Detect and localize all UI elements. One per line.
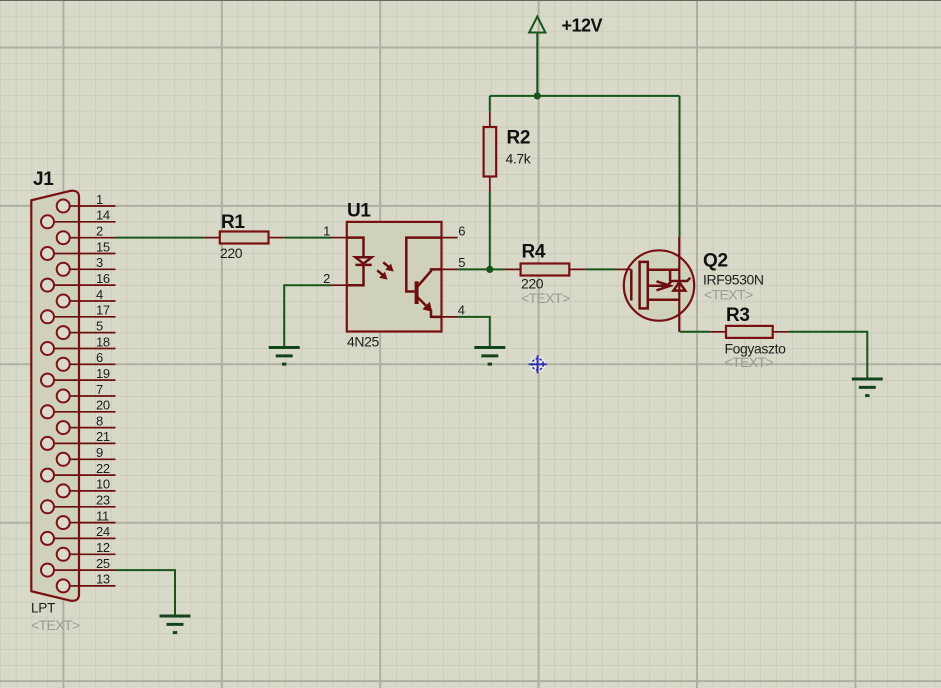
svg-text:14: 14 [96, 208, 110, 223]
svg-text:6: 6 [96, 350, 103, 365]
svg-text:<TEXT>: <TEXT> [521, 290, 570, 306]
wire J1 pin25 to ground [116, 570, 176, 616]
ground at R3 [852, 379, 883, 396]
svg-text:R3: R3 [726, 305, 750, 326]
U1 internal LED [347, 238, 372, 286]
svg-text:2: 2 [96, 224, 103, 239]
power +12V symbol [529, 17, 545, 96]
J1 pin circles [41, 200, 70, 593]
wire U1 pin4 to ground [458, 317, 490, 348]
svg-text:4N25: 4N25 [347, 334, 379, 350]
svg-text:18: 18 [96, 334, 110, 349]
svg-text:19: 19 [96, 366, 110, 381]
svg-text:9: 9 [96, 445, 103, 460]
svg-text:4: 4 [458, 303, 465, 318]
svg-text:22: 22 [96, 461, 110, 476]
svg-text:12: 12 [96, 540, 110, 555]
svg-text:21: 21 [96, 429, 110, 444]
wire rail to R2 [489, 96, 491, 111]
Q2 source/drain vertical stub [678, 237, 680, 332]
svg-text:25: 25 [96, 556, 110, 571]
wire node A to R4 [490, 268, 505, 270]
wire R1 to U1 pin1 [284, 237, 331, 239]
wire R4 to Q2 gate [585, 268, 616, 270]
svg-text:LPT: LPT [31, 601, 55, 616]
svg-text:13: 13 [96, 572, 110, 587]
wire +12V rail [490, 95, 680, 97]
svg-text:7: 7 [96, 382, 103, 397]
svg-text:R4: R4 [522, 242, 546, 263]
ground at J1 pin25 [160, 616, 191, 633]
transistor Q2 body [624, 250, 694, 320]
wire R2 to node A [489, 192, 491, 269]
svg-text:4.7k: 4.7k [506, 151, 532, 167]
svg-text:U1: U1 [347, 201, 371, 222]
wire U1 pin2 to ground [284, 285, 331, 347]
U1 pin 5 stub [442, 268, 458, 270]
svg-text:24: 24 [96, 524, 110, 539]
resistor R4 [521, 264, 570, 276]
U1 internal phototransistor [406, 238, 441, 317]
Q2 gate stub [616, 268, 631, 270]
resistor R3 [726, 326, 773, 338]
svg-text:Q2: Q2 [703, 251, 728, 272]
wire rail down to Q2 source [679, 96, 681, 237]
origin marker crosshair [529, 355, 547, 373]
svg-text:5: 5 [458, 255, 465, 270]
wire Q2 drain to R3 [680, 331, 711, 333]
resistor R3 leads [710, 331, 789, 333]
svg-text:J1: J1 [33, 169, 54, 190]
svg-text:1: 1 [96, 192, 103, 207]
optocoupler U1 body [347, 222, 442, 332]
svg-text:11: 11 [96, 508, 109, 523]
svg-text:1: 1 [323, 223, 330, 238]
wire U1 pin5 to node A [458, 268, 490, 270]
svg-text:4: 4 [96, 287, 103, 302]
svg-text:15: 15 [96, 239, 110, 254]
resistor R1 leads [204, 237, 285, 239]
svg-text:17: 17 [96, 303, 110, 318]
svg-text:220: 220 [220, 245, 243, 261]
resistor R4 leads [505, 268, 586, 270]
svg-text:20: 20 [96, 398, 110, 413]
svg-text:3: 3 [96, 255, 103, 270]
svg-text:IRF9530N: IRF9530N [703, 272, 764, 288]
J1 pin circle leads [48, 206, 80, 586]
wire R3 to ground [789, 332, 868, 379]
ground at U1 pin4 [474, 348, 505, 365]
svg-text:<TEXT>: <TEXT> [704, 287, 753, 303]
svg-text:+12V: +12V [562, 16, 603, 36]
connector J1 body [31, 191, 79, 601]
svg-text:8: 8 [96, 413, 103, 428]
svg-text:<TEXT>: <TEXT> [31, 617, 80, 633]
wire J1 pin2 to R1 [116, 237, 204, 239]
U1 pin 2 stub [331, 284, 347, 286]
svg-text:10: 10 [96, 477, 110, 492]
junction dot node A [486, 266, 493, 273]
junction dot on rail [534, 92, 541, 99]
U1 pin 6 stub [442, 237, 458, 239]
resistor R2 [484, 127, 497, 177]
U1 light arrows [377, 262, 393, 279]
Q2 internal mosfet graphics [631, 262, 690, 309]
svg-text:R2: R2 [507, 128, 531, 149]
U1 pin 1 stub [331, 237, 347, 239]
ground at U1 pin2 [269, 348, 300, 365]
U1 pin 4 stub [442, 316, 458, 318]
svg-text:5: 5 [96, 318, 103, 333]
J1 pin numbers [96, 192, 110, 587]
svg-text:2: 2 [323, 271, 330, 286]
svg-text:<TEXT>: <TEXT> [725, 354, 774, 370]
svg-text:6: 6 [458, 223, 465, 238]
svg-text:23: 23 [96, 493, 110, 508]
J1 pin stubs [79, 206, 116, 586]
resistor R2 leads [489, 111, 491, 192]
svg-text:R1: R1 [221, 212, 245, 233]
svg-text:16: 16 [96, 271, 110, 286]
resistor R1 [220, 232, 269, 244]
